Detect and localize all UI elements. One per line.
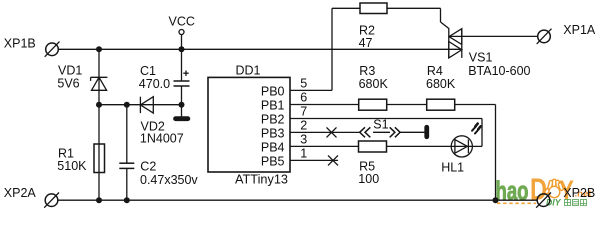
- svg-text:XP1A: XP1A: [563, 23, 596, 37]
- svg-text:47: 47: [359, 36, 373, 50]
- svg-text:1: 1: [300, 147, 307, 161]
- svg-text:VCC: VCC: [169, 15, 195, 29]
- svg-text:HL1: HL1: [441, 160, 464, 174]
- svg-text:PB5: PB5: [261, 154, 285, 168]
- svg-text:7: 7: [300, 105, 307, 119]
- svg-text:PB3: PB3: [261, 126, 285, 140]
- svg-text:DD1: DD1: [236, 63, 261, 77]
- svg-text:XP2B: XP2B: [563, 186, 595, 200]
- svg-text:VD1: VD1: [58, 64, 82, 78]
- svg-text:S1: S1: [373, 118, 388, 132]
- svg-text:PB4: PB4: [261, 140, 285, 154]
- svg-text:C2: C2: [140, 160, 156, 174]
- svg-text:PB0: PB0: [261, 84, 285, 98]
- svg-text:680K: 680K: [359, 77, 389, 91]
- svg-text:3: 3: [300, 133, 307, 147]
- svg-text:PB2: PB2: [261, 112, 285, 126]
- svg-text:D: D: [530, 172, 547, 207]
- svg-text:XP1B: XP1B: [4, 37, 36, 51]
- svg-text:DIY: DIY: [546, 197, 561, 207]
- svg-text:BTA10-600: BTA10-600: [468, 64, 530, 78]
- svg-text:XP2A: XP2A: [4, 186, 37, 200]
- svg-text:5V6: 5V6: [57, 77, 79, 91]
- svg-text:510K: 510K: [57, 159, 87, 173]
- svg-text:6: 6: [300, 91, 307, 105]
- svg-text:680K: 680K: [426, 77, 456, 91]
- svg-text:hao: hao: [496, 176, 529, 206]
- svg-text:470.0: 470.0: [139, 77, 170, 91]
- svg-text:2: 2: [300, 119, 307, 133]
- svg-text:ATTiny13: ATTiny13: [235, 172, 288, 186]
- svg-text:100: 100: [358, 172, 379, 186]
- svg-text:5: 5: [300, 77, 307, 91]
- svg-text:PB1: PB1: [261, 98, 285, 112]
- svg-text:1N4007: 1N4007: [140, 132, 184, 146]
- svg-text:VS1: VS1: [469, 50, 493, 64]
- svg-text:0.47x350v: 0.47x350v: [140, 173, 198, 187]
